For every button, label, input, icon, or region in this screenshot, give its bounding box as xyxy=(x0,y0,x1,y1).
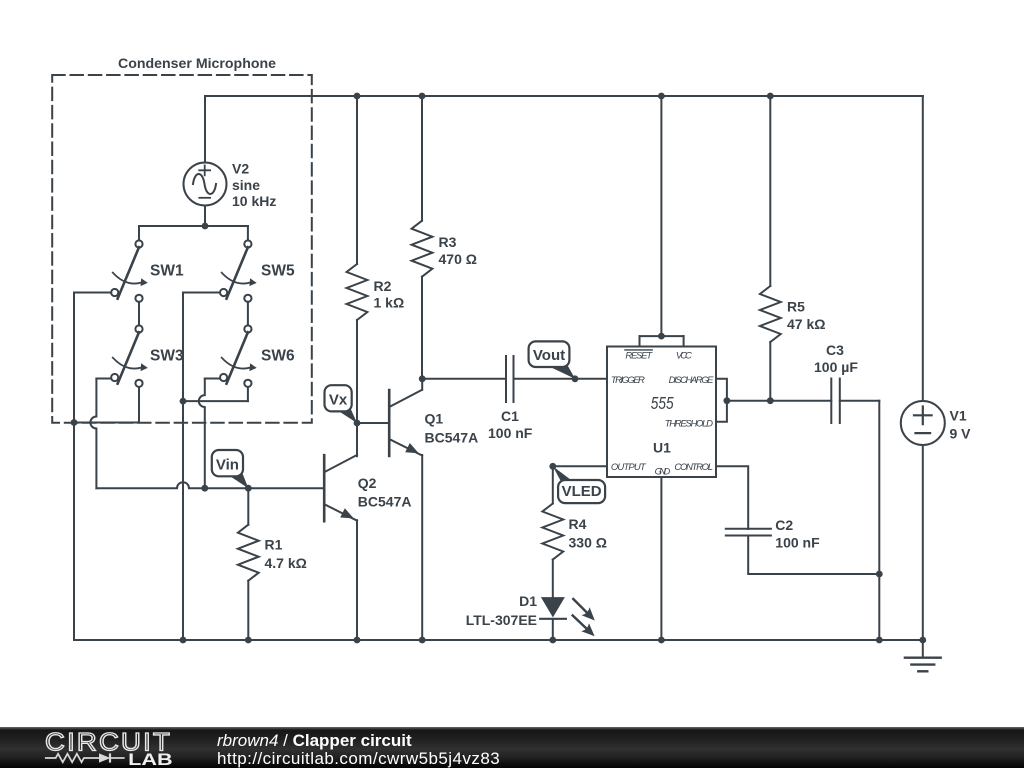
wire: V1 bottom to rail xyxy=(922,445,924,640)
wire: SW5-left vertical (x=183) to bottom rail xyxy=(182,293,184,641)
svg-text:R2: R2 xyxy=(374,278,392,294)
junction node below V2 xyxy=(202,223,209,230)
wire: top VCC rail xyxy=(205,95,923,97)
wire: DISCHARGE step xyxy=(716,379,727,422)
wire: RESET-VCC tie bar xyxy=(640,335,684,337)
svg-text:330 Ω: 330 Ω xyxy=(569,535,607,551)
resistor R4 xyxy=(542,466,563,598)
label C1 100 nF xyxy=(488,408,533,441)
svg-text:4.7 kΩ: 4.7 kΩ xyxy=(265,555,307,571)
capacitor C1 xyxy=(506,356,514,402)
wire: V2 bottom stub xyxy=(204,206,206,227)
node Vx flag xyxy=(325,385,358,423)
label C3 100 uF xyxy=(814,342,858,375)
svg-text:RESET: RESET xyxy=(625,350,653,361)
capacitor C2 xyxy=(726,529,771,536)
svg-text:C2: C2 xyxy=(775,517,793,533)
svg-text:TRIGGER: TRIGGER xyxy=(611,375,645,386)
label Q2 BC547A xyxy=(358,475,412,510)
switch SW1 xyxy=(111,240,148,302)
wire: VCC pin stub xyxy=(683,336,685,346)
wire: SW3 bottom to left bus xyxy=(74,422,139,424)
footer url line xyxy=(217,749,500,768)
svg-text:9 V: 9 V xyxy=(950,426,972,442)
wire: V2 top to rail xyxy=(204,96,206,163)
wire: V1 top to rail xyxy=(922,96,924,401)
wire: bottom ground rail xyxy=(74,639,923,641)
wire: C3 right plate to right bus xyxy=(840,400,880,402)
node Vin flag xyxy=(212,450,249,488)
wire: C1 right plate to TRIGGER pin xyxy=(514,378,608,380)
svg-text:D1: D1 xyxy=(519,593,537,609)
node VLED flag xyxy=(553,466,605,503)
LED emission arrows xyxy=(573,599,595,636)
svg-text:VCC: VCC xyxy=(676,350,692,361)
junction on bottom rail x=661.4 xyxy=(658,637,665,644)
wire: Q2 collector up to Vx node xyxy=(356,423,358,456)
wire: right bus down to rail xyxy=(878,401,880,640)
junction on bottom rail x=552.8 xyxy=(549,637,556,644)
LED D1 xyxy=(540,597,566,640)
junction VLED node xyxy=(549,463,556,470)
svg-text:THRESHOLD: THRESHOLD xyxy=(665,419,713,430)
svg-text:470 Ω: 470 Ω xyxy=(439,251,477,267)
svg-text:SW6: SW6 xyxy=(261,348,295,365)
svg-text:R1: R1 xyxy=(265,537,283,553)
svg-text:SW3: SW3 xyxy=(150,348,184,365)
wire: SW6 left contact stub xyxy=(205,378,220,380)
junction on bottom rail x=248.3 xyxy=(245,637,252,644)
wire: Vin horizontal with hop over x=183 bus xyxy=(96,482,324,488)
wire: SW3 left contact stub xyxy=(96,378,111,380)
svg-text:C3: C3 xyxy=(826,342,844,358)
wire: SW5 left contact stub xyxy=(183,292,220,294)
svg-text:V1: V1 xyxy=(950,408,967,424)
junction R3/Q1-collector/C1 xyxy=(419,375,426,382)
junction RESET/VCC tie xyxy=(658,333,665,340)
junction discharge/threshold xyxy=(724,397,731,404)
svg-text:VLED: VLED xyxy=(562,483,602,500)
label V1 9 V xyxy=(950,408,972,442)
ground symbol xyxy=(905,640,941,671)
wire: horizontal to switch tops xyxy=(139,225,248,227)
resistor R1 xyxy=(238,488,259,640)
wire: SW5 top stub xyxy=(247,226,249,240)
resistor R5 xyxy=(760,96,781,401)
resistor R3 xyxy=(412,96,433,379)
label V2 sine 10 kHz xyxy=(232,160,276,209)
svg-text:10 kHz: 10 kHz xyxy=(232,193,276,209)
svg-text:555: 555 xyxy=(651,393,674,413)
svg-text:C1: C1 xyxy=(501,408,519,424)
svg-text:LAB: LAB xyxy=(128,750,173,768)
footer credit line xyxy=(217,731,412,750)
label R1 4.7 kOhm xyxy=(265,537,307,572)
junction R2 top on rail xyxy=(354,93,361,100)
junction Vx node xyxy=(354,420,361,427)
label R2 1 kOhm xyxy=(374,278,405,311)
svg-text:100 µF: 100 µF xyxy=(814,359,858,375)
label R5 47 kOhm xyxy=(787,298,825,332)
svg-text:BC547A: BC547A xyxy=(425,430,479,446)
wire: OUTPUT pin to VLED node xyxy=(553,465,607,467)
junction SW6-bottom on x=183 xyxy=(180,398,187,405)
logo resistor-diode doodle xyxy=(45,753,125,762)
wire: SW1 top stub xyxy=(138,226,140,240)
junction on bottom rail x=357 xyxy=(354,637,361,644)
voltage source V2 (sine) xyxy=(184,163,227,206)
wire: Q1 base xyxy=(357,422,389,424)
wire: SW3-left vertical with hop over x-wire at y=422.5 xyxy=(90,379,96,489)
svg-text:Vin: Vin xyxy=(216,456,239,473)
svg-text:47 kΩ: 47 kΩ xyxy=(787,316,825,332)
junction R3 top on rail xyxy=(419,93,426,100)
svg-text:Vx: Vx xyxy=(329,391,348,408)
transistor Q1 (NPN BC547A) xyxy=(389,390,422,456)
svg-text:DISCHARGE: DISCHARGE xyxy=(669,375,715,386)
wire: Vout node to C1 left plate xyxy=(422,378,506,380)
svg-text:Q2: Q2 xyxy=(358,475,377,491)
svg-text:V2: V2 xyxy=(232,160,249,176)
wire: Q1 collector up to Vout node xyxy=(421,379,423,390)
svg-text:OUTPUT: OUTPUT xyxy=(611,462,647,473)
label R4 330 Ohm xyxy=(569,516,607,551)
junction on bottom rail x=922.8 xyxy=(919,637,926,644)
svg-text:SW1: SW1 xyxy=(150,263,184,280)
transistor Q2 (NPN BC547A) xyxy=(324,455,357,521)
wire: C2 bottom to right bus xyxy=(748,536,879,575)
svg-text:100 nF: 100 nF xyxy=(775,534,820,550)
wire: left bus vertical (x=74) xyxy=(73,293,75,641)
wire: SW3 bottom contact down xyxy=(138,387,140,422)
wire: SW6 bottom contact down xyxy=(247,387,249,401)
condenser microphone enclosure (dashed box) xyxy=(52,75,312,423)
wire: SW5 bottom to SW6 top xyxy=(247,302,249,326)
RESET overline xyxy=(625,349,652,351)
wire: GND pin down to rail xyxy=(660,477,662,640)
svg-text:R5: R5 xyxy=(787,298,805,314)
junction Vin / R1 xyxy=(245,485,252,492)
svg-text:Vout: Vout xyxy=(533,347,565,364)
junction R5 bottom xyxy=(767,397,774,404)
node Vout flag xyxy=(529,341,575,378)
svg-text:100 nF: 100 nF xyxy=(488,425,533,441)
junction Vout label node xyxy=(572,375,579,382)
svg-text:U1: U1 xyxy=(653,440,671,456)
svg-text:LTL-307EE: LTL-307EE xyxy=(466,612,537,628)
svg-text:R4: R4 xyxy=(569,516,587,532)
junction SW6-left on Vin wire xyxy=(201,485,208,492)
wire: SW1 bottom to SW3 top xyxy=(138,302,140,326)
junction R5 top on rail xyxy=(767,93,774,100)
svg-text:Condenser Microphone: Condenser Microphone xyxy=(118,55,276,71)
junction C2/C3 bus xyxy=(876,571,883,578)
svg-text:SW5: SW5 xyxy=(261,263,295,280)
footer bar xyxy=(0,727,1024,768)
svg-text:R3: R3 xyxy=(439,234,457,250)
wire: discharge node to C3 xyxy=(727,400,831,402)
wire: Q1 emitter down to ground rail xyxy=(421,455,423,640)
CircuitLab logo xyxy=(0,727,200,768)
voltage source V1 (9V battery) xyxy=(901,401,945,445)
junction on top rail for 555 xyxy=(658,93,665,100)
label C2 100 nF xyxy=(775,517,820,551)
svg-text:BC547A: BC547A xyxy=(358,494,412,510)
junction on bottom rail x=422.2 xyxy=(419,637,426,644)
wire: Q2 emitter down to ground rail xyxy=(356,520,358,640)
capacitor C3 xyxy=(831,379,840,424)
wire: SW6 bottom to x=183 bus xyxy=(183,400,248,402)
resistor R2 xyxy=(347,96,368,423)
wire: CONTROL pin to C2 xyxy=(716,466,748,529)
switch SW3 xyxy=(111,325,148,387)
switch SW6 xyxy=(220,325,257,387)
wire: SW6-left vertical with hop over y=401.1 wire xyxy=(199,379,205,489)
svg-text:1 kΩ: 1 kΩ xyxy=(374,295,405,311)
op-amp U1 (555 timer IC box) xyxy=(607,347,716,478)
svg-text:sine: sine xyxy=(232,177,260,193)
label D1 LTL-307EE xyxy=(466,593,538,628)
wire: RESET pin stub xyxy=(639,336,641,346)
label R3 470 Ohm xyxy=(439,234,477,267)
junction on bottom rail x=183 xyxy=(180,637,187,644)
junction on bottom rail x=879.3 xyxy=(876,637,883,644)
switch SW5 xyxy=(220,240,257,302)
label Q1 BC547A xyxy=(425,411,479,446)
svg-text:GND: GND xyxy=(655,467,671,478)
svg-text:CONTROL: CONTROL xyxy=(674,462,713,473)
junction on left bus xyxy=(71,419,78,426)
wire: VCC rail drop to 555 xyxy=(660,96,662,336)
svg-text:Q1: Q1 xyxy=(425,411,444,427)
wire: SW1 left contact to left bus xyxy=(74,292,111,294)
